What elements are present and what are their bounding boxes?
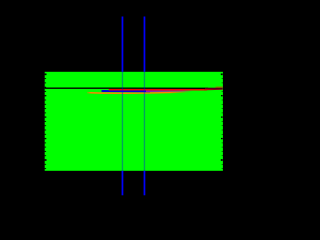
violet fading segment [146,90,193,93]
dark maroon continuation of black line [205,87,223,89]
blue segment [102,90,151,92]
vertical line 2 (above frame) [143,17,145,72]
red line [109,89,207,91]
y-axis ticks left edge [45,74,47,168]
black horizontal line [45,87,208,89]
vertical line 2 (below frame) [143,171,145,196]
plot frame (green pad) [45,72,223,171]
vertical lines inside frame (blended teal over green) [122,72,144,171]
olive tip segment [216,86,223,88]
vertical line 1 (above frame) [122,17,144,196]
curve bundle [45,87,223,93]
orange curve [87,92,190,93]
canvas background [0,0,234,234]
maroon tip of red line [204,88,223,91]
y-axis ticks right edge [221,74,223,168]
vertical line 1 (below frame) [121,171,123,196]
